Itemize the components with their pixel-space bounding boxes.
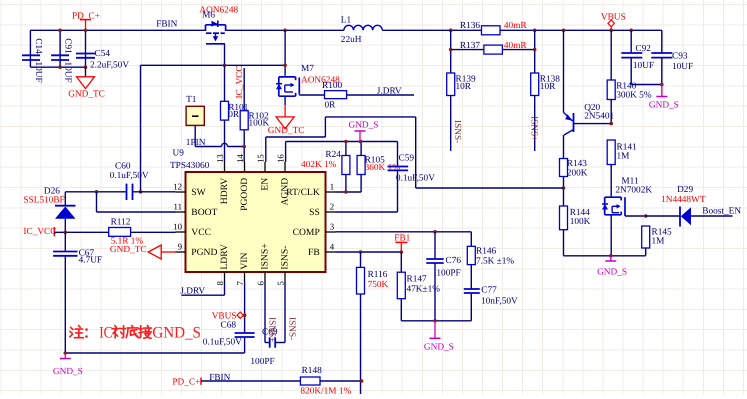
svg-text:R137: R137 (460, 41, 480, 51)
svg-text:IC_VCC: IC_VCC (235, 65, 245, 98)
svg-text:C77: C77 (481, 285, 497, 295)
svg-text:GND_S: GND_S (349, 120, 379, 130)
svg-text:COMP: COMP (293, 227, 320, 238)
svg-text:PGND: PGND (191, 247, 217, 258)
svg-text:0.1uF,50V: 0.1uF,50V (110, 171, 149, 181)
svg-text:GND_S: GND_S (597, 267, 627, 277)
svg-text:VCC: VCC (191, 227, 211, 238)
svg-text:R100: R100 (322, 81, 342, 91)
svg-text:GND_TC: GND_TC (110, 245, 147, 255)
svg-text:2: 2 (330, 202, 334, 212)
svg-text:5: 5 (276, 281, 286, 286)
svg-text:SSL510BF: SSL510BF (23, 195, 64, 205)
svg-text:7: 7 (235, 281, 245, 286)
svg-text:4: 4 (330, 242, 335, 252)
svg-text:0R: 0R (228, 110, 240, 120)
svg-text:10: 10 (173, 222, 182, 232)
svg-text:PD_C+: PD_C+ (172, 378, 200, 388)
svg-text:47K±1%: 47K±1% (407, 284, 441, 294)
svg-text:FBIN: FBIN (209, 373, 230, 383)
svg-text:IC_VCC: IC_VCC (23, 227, 56, 237)
svg-text:GND_S: GND_S (649, 101, 679, 111)
svg-text:3: 3 (330, 222, 335, 232)
svg-text:8: 8 (215, 281, 225, 286)
svg-text:10UF: 10UF (62, 62, 72, 83)
svg-text:200K: 200K (567, 168, 588, 178)
svg-text:6: 6 (256, 281, 266, 286)
svg-text:Boost_EN: Boost_EN (702, 206, 741, 216)
svg-text:13: 13 (215, 154, 225, 163)
svg-text:ISNS+: ISNS+ (260, 243, 271, 269)
svg-text:R146: R146 (476, 246, 496, 256)
svg-text:1N4448WT: 1N4448WT (661, 195, 706, 205)
svg-text:ISNS-: ISNS- (286, 317, 296, 340)
svg-text:14: 14 (235, 154, 245, 163)
svg-text:FBIN: FBIN (156, 20, 177, 30)
svg-text:T1: T1 (186, 95, 197, 105)
svg-text:10R: 10R (540, 82, 556, 92)
svg-text:40mR: 40mR (504, 21, 528, 31)
svg-text:C91: C91 (62, 38, 72, 54)
svg-text:PGOOD: PGOOD (239, 178, 250, 211)
svg-text:22uH: 22uH (341, 35, 362, 45)
svg-text:GND_S: GND_S (424, 342, 454, 352)
svg-text:40mR: 40mR (504, 41, 528, 51)
svg-text:C93: C93 (672, 52, 688, 62)
svg-text:R116: R116 (368, 270, 388, 280)
svg-text:M7: M7 (301, 64, 314, 74)
svg-text:2N5401: 2N5401 (584, 112, 614, 122)
svg-text:R24: R24 (325, 150, 341, 160)
svg-text:GND_TC: GND_TC (268, 126, 305, 136)
svg-text:10UF: 10UF (33, 62, 43, 83)
svg-text:ISNS-: ISNS- (452, 120, 462, 143)
svg-text:100K: 100K (570, 217, 591, 227)
svg-text:0R: 0R (325, 101, 337, 111)
svg-text:C68: C68 (221, 321, 237, 331)
svg-text:100K: 100K (249, 119, 270, 129)
svg-text:0.1uF,50V: 0.1uF,50V (396, 173, 435, 183)
svg-text:LDRV: LDRV (219, 244, 230, 269)
svg-text:1: 1 (330, 182, 334, 192)
svg-text:2N7002K: 2N7002K (615, 186, 652, 196)
svg-text:10UF: 10UF (672, 62, 693, 72)
svg-text:C69: C69 (262, 327, 278, 337)
svg-text:360K 1%: 360K 1% (365, 163, 401, 173)
svg-text:100PF: 100PF (436, 268, 460, 278)
svg-text:VBUS: VBUS (601, 12, 626, 22)
svg-text:10UF: 10UF (633, 61, 654, 71)
svg-text:11: 11 (174, 202, 182, 212)
svg-text:GND_S: GND_S (53, 367, 83, 377)
svg-text:C54: C54 (95, 49, 111, 59)
svg-text:9: 9 (178, 242, 183, 252)
svg-text:C14: C14 (33, 38, 43, 54)
svg-text:R148: R148 (302, 366, 322, 376)
svg-text:0.1uF,50V: 0.1uF,50V (203, 338, 242, 348)
svg-text:7.5K ±1%: 7.5K ±1% (476, 256, 514, 266)
svg-text:C92: C92 (635, 44, 651, 54)
svg-text:TPS43060: TPS43060 (170, 161, 210, 171)
svg-text:402K 1%: 402K 1% (301, 160, 337, 170)
svg-text:SW: SW (191, 187, 206, 198)
svg-text:BOOT: BOOT (191, 207, 217, 218)
svg-text:300K 5%: 300K 5% (616, 91, 652, 101)
svg-text:15: 15 (256, 154, 266, 163)
svg-text:16: 16 (276, 154, 286, 163)
svg-text:2.2uF,50V: 2.2uF,50V (90, 61, 129, 71)
svg-text:J.DRV: J.DRV (180, 286, 205, 296)
svg-text:10nF,50V: 10nF,50V (481, 296, 518, 306)
svg-text:GND_S: GND_S (152, 325, 201, 342)
svg-text:EN: EN (260, 178, 271, 191)
svg-text:ISNS+: ISNS+ (528, 116, 538, 141)
svg-text:C60: C60 (115, 161, 131, 171)
svg-text:750K: 750K (368, 280, 389, 290)
svg-text:R112: R112 (111, 218, 131, 228)
svg-text:SS: SS (309, 207, 320, 218)
svg-text:L1: L1 (341, 16, 352, 26)
svg-text:ISNS-: ISNS- (280, 246, 291, 270)
svg-text:GND_TC: GND_TC (68, 89, 105, 99)
svg-text:12: 12 (173, 182, 182, 192)
svg-text:D29: D29 (677, 185, 693, 195)
svg-text:U9: U9 (173, 149, 185, 159)
svg-text:J.DRV: J.DRV (377, 87, 402, 97)
svg-text:IC: IC (99, 325, 112, 342)
svg-text:HDRV: HDRV (219, 178, 230, 204)
svg-text:C76: C76 (446, 256, 462, 266)
svg-text:FB: FB (308, 247, 320, 258)
svg-text:100PF: 100PF (250, 357, 274, 367)
svg-text:VIN: VIN (239, 252, 250, 269)
svg-text:C59: C59 (399, 154, 415, 164)
svg-text:M6: M6 (202, 11, 215, 21)
svg-text:1M: 1M (617, 151, 630, 161)
svg-text:R147: R147 (407, 274, 427, 284)
svg-text:R136: R136 (460, 21, 480, 31)
svg-text:RT/CLK: RT/CLK (286, 187, 320, 198)
svg-text:1PIN: 1PIN (186, 138, 206, 148)
svg-text:10R: 10R (456, 82, 472, 92)
svg-text:AGND: AGND (280, 178, 291, 206)
svg-text:820K/1M 1%: 820K/1M 1% (300, 386, 351, 394)
svg-text:1M: 1M (652, 236, 665, 246)
svg-text:4.7UF: 4.7UF (79, 256, 103, 266)
